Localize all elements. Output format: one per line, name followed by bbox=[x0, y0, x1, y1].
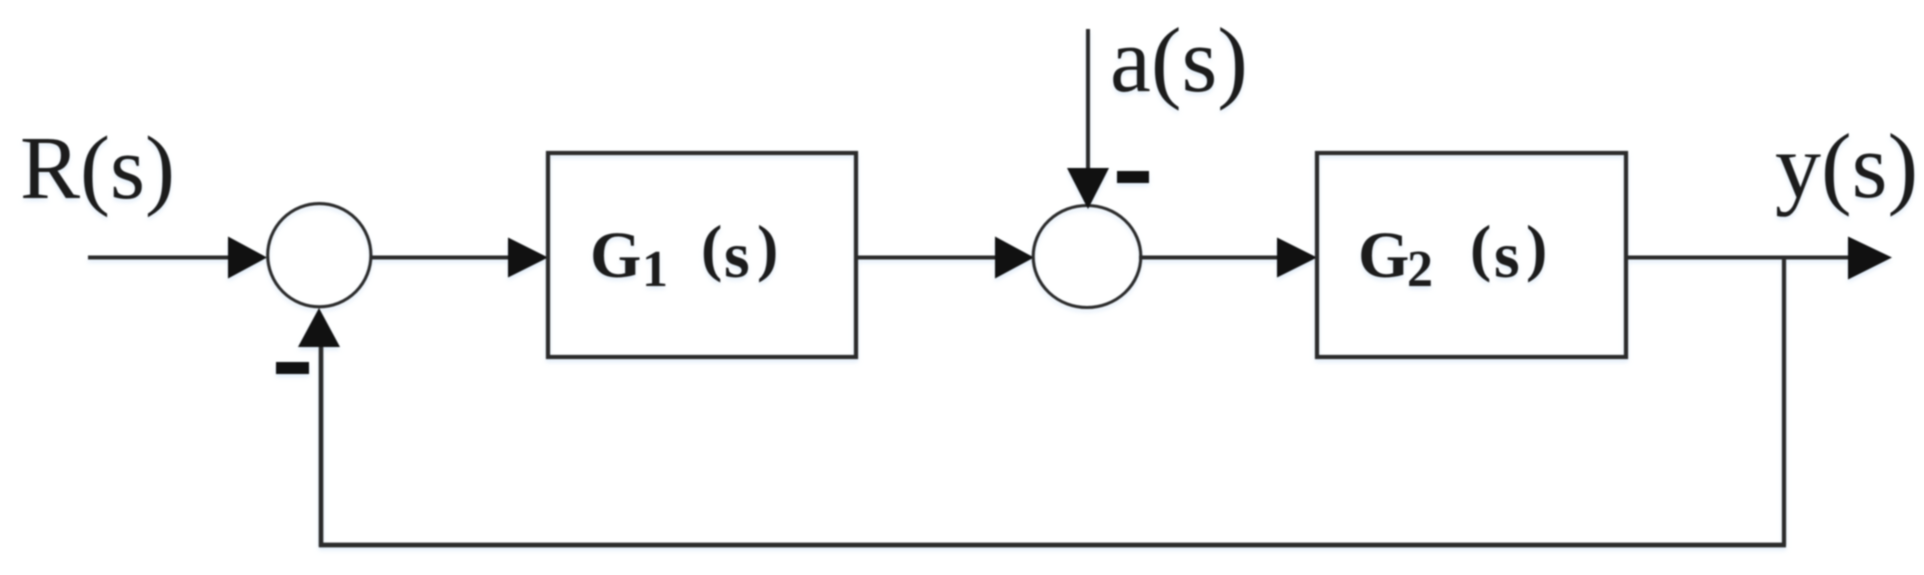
svg-text:): ) bbox=[1526, 212, 1547, 283]
label G1(s) bbox=[590, 212, 778, 298]
wire G1 to S2 bbox=[856, 256, 1001, 260]
svg-text:R(s): R(s) bbox=[20, 119, 175, 218]
arrowhead into block G2 bbox=[1277, 238, 1317, 278]
arrowhead into block G1 bbox=[508, 238, 548, 278]
svg-text:(: ( bbox=[1470, 212, 1491, 283]
minus sign at S2 bbox=[1117, 171, 1149, 183]
arrowhead feedback into S1 bbox=[298, 308, 340, 347]
wire: input R(s) bbox=[88, 256, 234, 260]
svg-text:1: 1 bbox=[642, 241, 668, 298]
node: feedback branch point bbox=[1782, 258, 1786, 546]
wire S2 to G2 bbox=[1139, 256, 1283, 260]
minus sign at S1 bbox=[276, 362, 309, 374]
wire: feedback bottom run bbox=[319, 543, 1786, 548]
summing junction S1 bbox=[268, 204, 371, 307]
svg-text:(: ( bbox=[701, 212, 722, 283]
svg-text:s: s bbox=[724, 219, 750, 292]
arrowhead output y(s) bbox=[1848, 237, 1892, 280]
label G2(s) bbox=[1358, 212, 1547, 298]
arrowhead a(s) into S2 bbox=[1067, 168, 1109, 209]
wire: feedback riser into S1 bbox=[319, 344, 324, 547]
wire G2 to output y(s) bbox=[1626, 256, 1854, 260]
summing junction S2 bbox=[1033, 206, 1141, 308]
svg-text:G: G bbox=[590, 219, 641, 292]
svg-text:a(s): a(s) bbox=[1110, 9, 1248, 111]
block G1 bbox=[548, 153, 856, 357]
wire: disturbance a(s) drop bbox=[1086, 29, 1090, 172]
arrowhead into summing junction S1 bbox=[228, 237, 267, 279]
svg-text:s: s bbox=[1494, 219, 1520, 292]
svg-text:y(s): y(s) bbox=[1775, 115, 1918, 217]
block G2 bbox=[1317, 153, 1626, 357]
svg-text:2: 2 bbox=[1407, 241, 1433, 298]
svg-text:G: G bbox=[1358, 219, 1409, 292]
arrowhead into summing junction S2 bbox=[995, 237, 1034, 279]
wire S1 to G1 bbox=[371, 256, 514, 260]
svg-text:): ) bbox=[757, 212, 778, 283]
